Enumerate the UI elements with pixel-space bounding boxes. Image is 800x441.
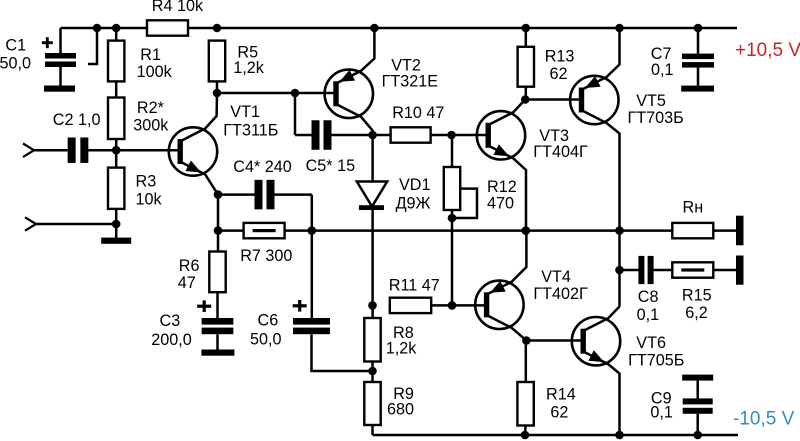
svg-text:10k: 10k: [136, 191, 163, 209]
svg-text:300k: 300k: [133, 117, 169, 135]
svg-text:R4 10k: R4 10k: [152, 0, 204, 15]
svg-text:R12: R12: [487, 178, 517, 196]
svg-text:R10 47: R10 47: [392, 104, 444, 122]
svg-text:R13: R13: [545, 48, 575, 66]
svg-text:ГТ402Г: ГТ402Г: [533, 285, 588, 303]
svg-text:680: 680: [387, 401, 414, 419]
svg-text:R11 47: R11 47: [389, 277, 440, 295]
svg-text:0,1: 0,1: [651, 61, 674, 79]
svg-text:C6: C6: [258, 311, 279, 329]
svg-text:50,0: 50,0: [250, 331, 282, 349]
svg-text:ГТ404Г: ГТ404Г: [533, 143, 588, 161]
svg-text:R1: R1: [140, 46, 161, 64]
svg-text:200,0: 200,0: [151, 331, 192, 349]
svg-text:VT1: VT1: [230, 103, 260, 121]
svg-text:VT6: VT6: [636, 334, 666, 352]
svg-text:50,0: 50,0: [0, 54, 31, 72]
svg-text:C8: C8: [638, 288, 659, 306]
svg-text:VT5: VT5: [636, 92, 666, 110]
svg-text:100k: 100k: [137, 63, 173, 81]
svg-text:C5* 15: C5* 15: [306, 157, 356, 175]
svg-text:R14: R14: [546, 385, 576, 403]
svg-text:1,2k: 1,2k: [386, 340, 418, 358]
svg-text:C4* 240: C4* 240: [233, 158, 291, 176]
svg-text:Rн: Rн: [683, 198, 704, 216]
svg-text:ГТ705Б: ГТ705Б: [628, 352, 684, 370]
svg-text:470: 470: [487, 195, 514, 213]
svg-text:R15: R15: [682, 287, 712, 305]
svg-text:0,1: 0,1: [650, 403, 673, 421]
svg-text:62: 62: [550, 65, 568, 83]
svg-text:-10,5 V: -10,5 V: [733, 409, 795, 430]
svg-text:+10,5 V: +10,5 V: [735, 40, 800, 61]
svg-text:R7 300: R7 300: [240, 247, 292, 265]
svg-text:1,2k: 1,2k: [233, 59, 265, 77]
svg-text:47: 47: [178, 274, 196, 292]
svg-text:0,1: 0,1: [637, 306, 660, 324]
svg-text:ГТ311Б: ГТ311Б: [223, 122, 278, 140]
svg-text:62: 62: [550, 404, 568, 422]
svg-text:6,2: 6,2: [685, 304, 708, 322]
svg-text:VD1: VD1: [399, 176, 431, 194]
svg-text:ГТ321Е: ГТ321Е: [382, 73, 439, 91]
svg-text:ГТ703Б: ГТ703Б: [628, 109, 684, 127]
svg-text:R6: R6: [179, 257, 200, 275]
svg-text:R3: R3: [136, 173, 157, 191]
svg-text:VT4: VT4: [541, 268, 571, 286]
svg-text:C3: C3: [160, 312, 181, 330]
svg-text:R2*: R2*: [137, 99, 165, 117]
svg-text:Д9Ж: Д9Ж: [396, 194, 431, 212]
svg-text:C1: C1: [5, 37, 26, 55]
svg-text:C2 1,0: C2 1,0: [53, 111, 101, 129]
